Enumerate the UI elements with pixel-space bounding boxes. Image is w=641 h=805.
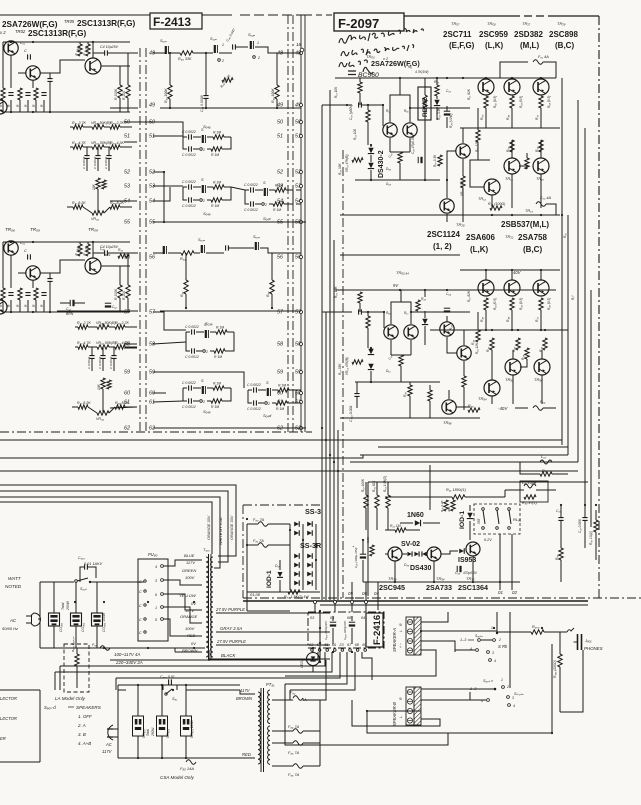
svg-text:SPEAKER-B: SPEAKER-B xyxy=(392,702,397,726)
wire xyxy=(127,98,129,112)
contact 4a xyxy=(476,649,479,652)
wire xyxy=(469,505,471,511)
svg-text:1–3: 1–3 xyxy=(470,687,477,691)
junction xyxy=(163,221,165,223)
wire supply rail lower xyxy=(335,289,556,291)
svg-text:R₁₂ 82K: R₁₂ 82K xyxy=(467,290,471,302)
svg-text:2SA758: 2SA758 xyxy=(518,233,547,242)
connector pin 1 xyxy=(161,606,164,609)
wire long rail 440 xyxy=(0,439,368,441)
svg-text:R: R xyxy=(399,623,403,626)
wire xyxy=(376,482,378,495)
resistor R₉₅ 82K xyxy=(375,495,379,508)
wire xyxy=(247,610,290,612)
resistor 2.7K xyxy=(73,125,83,129)
junction xyxy=(329,454,331,456)
svg-text:R₆₀: R₆₀ xyxy=(480,114,484,120)
wire xyxy=(10,241,12,242)
junction xyxy=(319,661,321,663)
wire xyxy=(359,78,361,82)
svg-text:GREEN: GREEN xyxy=(182,568,196,573)
resistor R93 3.3K xyxy=(438,155,442,166)
coil L01 16uH xyxy=(524,484,536,488)
svg-text:R₃₅ 2.7K: R₃₅ 2.7K xyxy=(72,121,86,125)
border top-right segment xyxy=(402,15,520,17)
wire xyxy=(88,346,97,348)
wire pin xyxy=(377,582,379,610)
svg-text:1: 1 xyxy=(155,606,157,610)
svg-text:2SC1124: 2SC1124 xyxy=(427,230,460,239)
wire route 1 xyxy=(110,652,318,660)
resistor R38 xyxy=(525,158,529,169)
wire xyxy=(127,298,129,312)
wire xyxy=(74,302,85,304)
junction xyxy=(92,241,94,243)
svg-text:R₄₉ 33K: R₄₉ 33K xyxy=(178,57,192,61)
capacitor C36 lower xyxy=(444,307,450,309)
wire preamp bottom rail xyxy=(2,111,130,113)
wire xyxy=(224,387,231,389)
bus B node 61 xyxy=(300,401,303,404)
wire xyxy=(92,42,94,58)
wire left bus 3 xyxy=(329,90,331,600)
resistor xyxy=(184,280,188,294)
wire xyxy=(102,389,104,409)
resistor R47 100K xyxy=(168,85,172,99)
svg-text:06: 06 xyxy=(362,591,367,596)
svg-text:S₀₄ₑ: S₀₄ₑ xyxy=(203,409,211,414)
svg-text:R 1M: R 1M xyxy=(216,326,224,330)
pin hole xyxy=(144,604,146,606)
wire xyxy=(470,699,486,701)
svg-text:TR₆₂,₆₄: TR₆₂,₆₄ xyxy=(396,270,409,275)
wire xyxy=(406,529,420,531)
junction xyxy=(410,311,412,313)
svg-text:R₃₂ 4.7K: R₃₂ 4.7K xyxy=(72,141,86,145)
transistor driver 2 xyxy=(533,158,549,174)
capacitor C49 xyxy=(203,96,208,99)
resistor R98 top xyxy=(540,472,552,476)
resistor R91 100 xyxy=(490,206,502,210)
wire xyxy=(370,170,372,180)
handwritten = BC560 xyxy=(348,71,356,75)
svg-text:3. B: 3. B xyxy=(78,732,86,737)
wire xyxy=(520,461,540,463)
svg-text:51: 51 xyxy=(277,134,283,140)
wire row62 long xyxy=(153,427,306,429)
wire xyxy=(247,544,258,546)
capacitor C361 xyxy=(354,394,359,397)
wire xyxy=(429,465,431,510)
svg-text:C 0.0022: C 0.0022 xyxy=(247,383,261,387)
transistor predriver lower xyxy=(457,346,471,360)
wire xyxy=(276,53,278,85)
wire xyxy=(206,252,224,254)
wire xyxy=(383,312,385,328)
svg-text:2: 2 xyxy=(267,402,270,406)
junction xyxy=(49,311,51,313)
bus A dashdot left xyxy=(139,48,141,432)
transistor TR06 xyxy=(4,241,18,255)
wire xyxy=(389,138,391,152)
transistor TR03 xyxy=(85,58,101,74)
svg-text:R₃₆ 2.7K: R₃₆ 2.7K xyxy=(110,121,124,125)
wire preamp top rail xyxy=(3,241,130,243)
relay contact bottom xyxy=(508,527,511,530)
svg-text:C 0.0033: C 0.0033 xyxy=(87,356,91,369)
svg-text:(L,K): (L,K) xyxy=(470,245,489,254)
wire xyxy=(104,146,110,148)
resistor xyxy=(476,330,480,342)
svg-text:R₅₀: R₅₀ xyxy=(506,146,510,152)
svg-text:S₀₁ₐ: S₀₁ₐ xyxy=(160,39,167,43)
wire from band down xyxy=(509,612,511,688)
AC plug CSA xyxy=(108,725,113,740)
wire xyxy=(362,540,364,554)
svg-text:C₃₆₁ 0.001: C₃₆₁ 0.001 xyxy=(349,405,353,422)
wire xyxy=(448,390,450,399)
relay contact arm xyxy=(497,510,499,524)
svg-text:WATT: WATT xyxy=(8,576,22,581)
junction xyxy=(10,311,12,313)
wire xyxy=(485,270,487,280)
resistor R98 right xyxy=(559,548,563,560)
resistor R30 xyxy=(539,140,543,152)
resistor emitter 5 xyxy=(510,298,514,310)
wire xyxy=(272,402,276,404)
junction xyxy=(485,77,487,79)
wire xyxy=(40,60,85,73)
contact 1-3 xyxy=(478,639,481,642)
svg-text:27.5V PURPLE: 27.5V PURPLE xyxy=(215,607,245,612)
svg-text:59: 59 xyxy=(277,370,283,376)
wire xyxy=(446,117,448,128)
wire xyxy=(436,107,438,120)
wire route vertical 5 xyxy=(590,290,592,527)
diode xyxy=(422,319,428,325)
wire jack ground xyxy=(560,650,583,712)
svg-text:470µ6-3V: 470µ6-3V xyxy=(463,571,478,575)
svg-text:R₄₆: R₄₆ xyxy=(506,114,510,120)
terminal screw xyxy=(407,699,412,704)
node 18 xyxy=(300,48,304,52)
junction xyxy=(332,651,334,653)
wire route vertical 2 xyxy=(567,215,569,455)
resistor R91 xyxy=(476,130,480,142)
transistor TR output 3 xyxy=(533,79,549,95)
junction xyxy=(399,289,401,291)
wire AC rail top right xyxy=(90,581,144,583)
junction xyxy=(319,627,321,629)
capacitor tone xyxy=(95,156,100,159)
junction xyxy=(74,601,76,603)
resistor emitter 6 xyxy=(539,298,543,310)
wire xyxy=(312,665,314,672)
bus B node 49 xyxy=(300,104,303,107)
wire CSA top rail xyxy=(118,684,240,686)
wire xyxy=(35,300,37,312)
junction xyxy=(560,504,562,506)
wire xyxy=(399,78,401,95)
capacitor xyxy=(47,79,52,82)
wire route vertical 4 xyxy=(584,128,586,510)
wire xyxy=(409,138,411,152)
resistor emitter 3 xyxy=(539,96,543,108)
resistor xyxy=(358,292,362,303)
resistor R₉₇ 100K xyxy=(364,495,368,508)
wire preamp top rail xyxy=(3,41,130,43)
resistor 1M xyxy=(278,388,289,392)
wire xyxy=(541,350,543,359)
wire xyxy=(351,628,353,644)
wire xyxy=(400,366,402,382)
core line 2 xyxy=(210,554,212,660)
pin hole 66 xyxy=(334,649,337,652)
diode SS-3R xyxy=(294,553,299,559)
wire xyxy=(88,326,97,328)
capacitor C36 upper xyxy=(444,110,450,112)
svg-text:D₀₈: D₀₈ xyxy=(386,182,392,186)
svg-text:R₁₆: R₁₆ xyxy=(404,109,409,113)
junction xyxy=(276,107,278,109)
svg-text:LA Model Only: LA Model Only xyxy=(55,696,86,701)
svg-text:(B,C): (B,C) xyxy=(555,41,574,50)
wire xyxy=(356,397,358,408)
contact 4 xyxy=(489,659,492,662)
svg-text:TR₁₆: TR₁₆ xyxy=(536,177,544,181)
wire row60 stub xyxy=(153,392,166,394)
svg-text:62: 62 xyxy=(124,426,130,432)
wire xyxy=(207,186,213,188)
capacitor xyxy=(189,134,192,139)
wire xyxy=(245,189,249,191)
wire xyxy=(113,736,118,738)
resistor preamp bank 2 xyxy=(18,88,22,100)
junction xyxy=(409,107,411,109)
wire xyxy=(258,402,264,404)
wire xyxy=(485,78,487,79)
wire nested rail 5 xyxy=(344,470,578,472)
wire route down a xyxy=(284,684,286,700)
wire xyxy=(170,52,180,54)
wire xyxy=(113,728,118,730)
capacitor xyxy=(47,279,52,282)
svg-text:C 0.0022: C 0.0022 xyxy=(182,381,196,385)
svg-text:R₇₀: R₇₀ xyxy=(535,114,539,120)
wire row 49 xyxy=(160,107,301,109)
svg-text:S₉₀ₖ-d: S₉₀ₖ-d xyxy=(44,705,56,710)
svg-text:100~117V 4A: 100~117V 4A xyxy=(114,652,140,657)
svg-text:VR₀₂ 47K(B): VR₀₂ 47K(B) xyxy=(345,357,349,375)
wire xyxy=(540,108,542,128)
capacitor xyxy=(189,385,192,390)
svg-text:VR₃₂ 50K(B): VR₃₂ 50K(B) xyxy=(91,141,111,145)
junction xyxy=(517,329,519,331)
svg-text:R₉₈: R₉₈ xyxy=(542,469,548,473)
junction xyxy=(485,269,487,271)
svg-text:2. A: 2. A xyxy=(77,723,86,728)
junction xyxy=(511,269,513,271)
resistor 1M xyxy=(211,399,222,403)
svg-text:2: 2 xyxy=(202,148,205,152)
wire xyxy=(400,522,413,524)
junction xyxy=(193,601,195,603)
wire node48 feed xyxy=(115,52,138,54)
junction xyxy=(370,179,372,181)
resistor R₉₃ 1.8K(2) xyxy=(386,495,390,508)
wire xyxy=(382,105,384,126)
svg-text:R₉ₓ 3.3K: R₉ₓ 3.3K xyxy=(433,154,437,167)
switch S01b xyxy=(163,246,165,254)
svg-text:52: 52 xyxy=(277,170,283,176)
wire xyxy=(526,153,528,158)
capacitor tone xyxy=(106,156,111,159)
svg-text:+ −: + − xyxy=(399,643,403,648)
handwritten note line 1 xyxy=(339,29,423,43)
svg-text:R₉₉ 47(1): R₉₉ 47(1) xyxy=(522,501,537,505)
wire xyxy=(362,560,364,582)
wire xyxy=(385,553,388,555)
wire xyxy=(441,551,458,554)
wire xyxy=(119,98,121,112)
wire xyxy=(137,736,139,758)
resistor R72 lower xyxy=(416,300,420,311)
svg-text:TR₃₂: TR₃₂ xyxy=(466,576,475,581)
svg-text:C: C xyxy=(139,580,142,584)
wire xyxy=(193,136,201,138)
svg-text:4. A+B: 4. A+B xyxy=(78,741,91,746)
transistor TR08 xyxy=(26,266,40,280)
svg-text:C₂₉: C₂₉ xyxy=(455,571,461,575)
diode IS953 xyxy=(459,548,464,554)
svg-text:S₀₃ₑ: S₀₃ₑ xyxy=(205,321,213,326)
junction xyxy=(485,329,487,331)
relay contact top xyxy=(508,508,511,511)
transistor driver 1 xyxy=(504,158,520,174)
wire xyxy=(484,688,494,690)
svg-text:BLACK: BLACK xyxy=(221,653,236,658)
wire xyxy=(469,692,471,700)
divider psu top dashdot xyxy=(243,504,320,506)
connector pin 4 xyxy=(161,565,164,568)
svg-text:R₄₅ (0.5): R₄₅ (0.5) xyxy=(547,298,551,310)
resistor 4.7K xyxy=(78,345,88,349)
capacitor preamp bank 1 xyxy=(8,93,13,96)
wire xyxy=(370,145,372,147)
wire xyxy=(511,108,513,128)
wire xyxy=(351,616,353,621)
svg-text:117V: 117V xyxy=(185,608,194,613)
wire xyxy=(2,242,4,288)
fuse F81 7A xyxy=(258,543,268,548)
wire spkA 1 xyxy=(421,612,448,622)
wire xyxy=(119,298,121,312)
potentiometer VR 50K(B) xyxy=(92,145,104,149)
capacitor tone xyxy=(89,356,94,359)
wire xyxy=(390,151,410,153)
wire xyxy=(276,99,278,108)
pin hole 68 xyxy=(356,649,359,652)
wire xyxy=(124,121,137,123)
wire xyxy=(174,648,176,652)
wire xyxy=(75,582,77,613)
svg-text:R₁₃ 12K: R₁₃ 12K xyxy=(475,140,479,152)
wire route 2 xyxy=(60,652,325,666)
wire xyxy=(75,326,78,328)
svg-text:C₀₃: C₀₃ xyxy=(446,89,452,93)
svg-text:R₁₁: R₁₁ xyxy=(408,65,412,69)
wire xyxy=(10,41,12,42)
svg-text:R₉₃ 3.3K: R₉₃ 3.3K xyxy=(437,107,441,120)
pin hole 69 xyxy=(364,649,367,652)
resistor 10K xyxy=(101,378,105,389)
svg-text:2: 2 xyxy=(506,685,509,689)
wire spkB 2 xyxy=(421,699,470,701)
transistor TR output 2 xyxy=(504,79,520,95)
wire xyxy=(119,66,121,85)
svg-text:C₀₁: C₀₁ xyxy=(20,241,25,245)
handwritten note line 3 xyxy=(339,60,367,67)
wire xyxy=(127,53,129,85)
wire xyxy=(268,544,290,546)
bus B node 60 xyxy=(300,392,303,395)
svg-text:PU₈₀: PU₈₀ xyxy=(148,552,158,557)
wire xyxy=(520,462,540,474)
resistor xyxy=(366,316,370,328)
svg-text:TR₃₃: TR₃₃ xyxy=(388,576,397,581)
border top dashes xyxy=(524,15,548,17)
svg-text:x 2: x 2 xyxy=(382,57,389,61)
resistor R16b xyxy=(428,390,432,401)
diode bias upper 2 xyxy=(368,163,374,169)
wire long rail 458 xyxy=(0,455,363,458)
svg-text:VR₃₂ 50K(B): VR₃₂ 50K(B) xyxy=(96,341,116,345)
wire xyxy=(227,331,234,333)
resistor 47K xyxy=(107,380,111,389)
svg-text:T₈₀₁: T₈₀₁ xyxy=(203,548,211,552)
potentiometer VR 50K(B) xyxy=(92,125,104,129)
svg-text:S₁₀ₐ: S₁₀ₐ xyxy=(210,37,217,41)
svg-text:D₀₆: D₀₆ xyxy=(386,167,392,171)
wire xyxy=(185,736,187,758)
wire xyxy=(365,482,367,495)
wire route 4 xyxy=(116,652,340,678)
transistor driver 3 xyxy=(484,179,500,195)
svg-text:TR05: TR05 xyxy=(64,19,75,24)
wire xyxy=(546,204,556,215)
wire xyxy=(219,52,232,54)
wire right vert join xyxy=(319,611,321,662)
wire node57 feed xyxy=(57,310,138,312)
svg-text:NOTED: NOTED xyxy=(5,584,22,589)
pin hole xyxy=(144,580,146,582)
wire xyxy=(193,387,201,389)
resistor R30b xyxy=(543,338,547,350)
AC outlet CO₈₀₁ xyxy=(49,613,60,626)
wire xyxy=(584,521,586,548)
wire xyxy=(367,105,369,110)
switch S04a sel xyxy=(250,41,252,49)
wire xyxy=(402,553,407,555)
resistor xyxy=(461,176,465,188)
wire xyxy=(559,667,561,712)
svg-text:BRN: BRN xyxy=(66,312,74,316)
pin node 03 xyxy=(314,601,317,604)
wire rail above out row xyxy=(460,269,560,271)
switch S04a xyxy=(202,135,204,143)
svg-text:R₈₀₉ C₅₀ₖ₂ₘ: R₈₀₉ C₅₀ₖ₂ₘ xyxy=(71,636,75,652)
wire row 57 xyxy=(160,310,301,312)
